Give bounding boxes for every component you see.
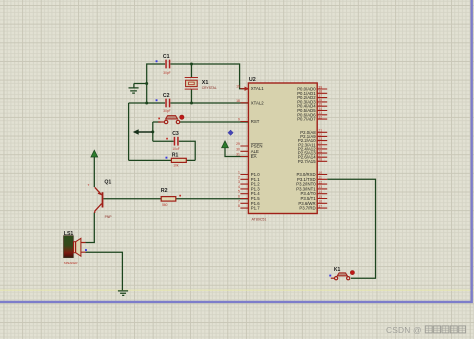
svg-text:C2: C2 xyxy=(163,93,170,99)
svg-text:PSEN: PSEN xyxy=(251,144,263,149)
svg-text:30pF: 30pF xyxy=(163,109,170,113)
svg-text:5: 5 xyxy=(238,190,240,194)
svg-text:Q1: Q1 xyxy=(104,180,111,186)
svg-text:28: 28 xyxy=(318,158,322,162)
svg-text:560: 560 xyxy=(162,203,168,207)
svg-text:R2: R2 xyxy=(161,188,168,194)
svg-text:3: 3 xyxy=(238,180,240,184)
svg-text:32: 32 xyxy=(318,115,322,119)
svg-text:U2: U2 xyxy=(249,77,256,83)
svg-text:12: 12 xyxy=(318,180,322,184)
svg-text:PNP: PNP xyxy=(105,215,113,219)
svg-text:XTAL2: XTAL2 xyxy=(251,100,264,105)
svg-text:4: 4 xyxy=(238,185,240,189)
svg-text:11: 11 xyxy=(318,176,322,180)
svg-text:C3: C3 xyxy=(172,131,179,137)
svg-text:K1: K1 xyxy=(334,267,341,273)
svg-text:10uF: 10uF xyxy=(172,147,179,151)
svg-text:P3.7/RD: P3.7/RD xyxy=(299,206,315,211)
svg-text:10: 10 xyxy=(318,171,322,175)
svg-text:C1: C1 xyxy=(163,54,170,60)
svg-text:LS1: LS1 xyxy=(64,231,74,237)
svg-text:CRYSTAL: CRYSTAL xyxy=(202,86,217,90)
svg-text:17: 17 xyxy=(318,204,322,208)
svg-text:EA: EA xyxy=(251,154,257,159)
svg-text:P0.7/AD7: P0.7/AD7 xyxy=(297,117,316,122)
svg-text:8: 8 xyxy=(238,204,240,208)
svg-text:P2.7/A15: P2.7/A15 xyxy=(298,159,316,164)
svg-text:16: 16 xyxy=(318,200,322,204)
svg-text:6: 6 xyxy=(238,195,240,199)
svg-text:RST: RST xyxy=(251,119,260,124)
svg-text:CSDN @: CSDN @ xyxy=(386,325,422,335)
svg-text:13: 13 xyxy=(318,185,322,189)
svg-text:AT89C51: AT89C51 xyxy=(252,217,267,221)
svg-text:10k: 10k xyxy=(173,164,179,168)
svg-text:2: 2 xyxy=(238,175,240,179)
svg-text:XTAL1: XTAL1 xyxy=(251,86,264,91)
svg-text:31: 31 xyxy=(236,153,240,157)
svg-text:1: 1 xyxy=(238,171,240,175)
svg-text:9: 9 xyxy=(238,118,240,122)
svg-text:7: 7 xyxy=(238,199,240,203)
svg-text:29: 29 xyxy=(236,142,240,146)
svg-text:X1: X1 xyxy=(202,80,209,86)
svg-text:19: 19 xyxy=(236,85,240,89)
svg-text:R1: R1 xyxy=(172,153,179,159)
svg-text:30: 30 xyxy=(236,147,240,151)
svg-text:SPEAKER: SPEAKER xyxy=(64,261,78,265)
svg-text:30pF: 30pF xyxy=(163,71,170,75)
svg-text:P1.7: P1.7 xyxy=(251,206,260,211)
svg-text:15: 15 xyxy=(318,195,322,199)
svg-text:14: 14 xyxy=(318,190,322,194)
svg-text:*: * xyxy=(88,183,90,188)
svg-text:18: 18 xyxy=(236,99,240,103)
